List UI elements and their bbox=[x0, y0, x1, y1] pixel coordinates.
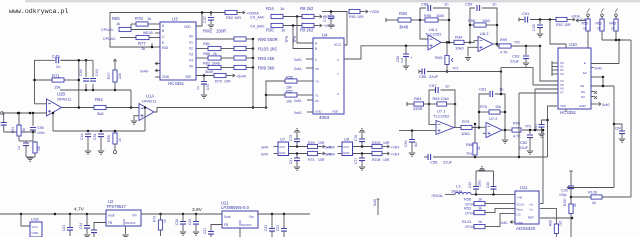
svg-text:C57: C57 bbox=[429, 83, 437, 88]
wire inv bbox=[420, 20, 428, 39]
svg-text:R38: R38 bbox=[399, 11, 407, 16]
svg-text:GND: GND bbox=[279, 151, 285, 155]
wire bbox=[195, 214, 197, 221]
wire non-inv input bbox=[2, 112, 47, 114]
input connector bbox=[1, 112, 4, 115]
stub X0 bbox=[551, 61, 553, 65]
wire bbox=[221, 48, 234, 50]
wire bbox=[382, 153, 386, 155]
junction bbox=[87, 130, 90, 133]
wire bbox=[182, 225, 184, 231]
svg-text:U11: U11 bbox=[520, 185, 528, 190]
wire GND stub bbox=[591, 103, 597, 105]
wire bbox=[541, 127, 543, 133]
junction bbox=[296, 145, 299, 148]
resistor R81 bbox=[208, 46, 221, 50]
wire bbox=[529, 130, 531, 134]
svg-text:R99: R99 bbox=[500, 38, 507, 42]
svg-text:CPU40-: CPU40- bbox=[103, 37, 117, 41]
svg-text:+5v40: +5v40 bbox=[236, 74, 246, 78]
junction bbox=[159, 213, 162, 216]
svg-text:www.odkrywca.pl: www.odkrywca.pl bbox=[9, 8, 68, 15]
svg-text:0v40-: 0v40- bbox=[294, 67, 302, 71]
wire pin stub bbox=[155, 63, 160, 65]
svg-text:R74: R74 bbox=[308, 158, 314, 162]
svg-text:1k: 1k bbox=[597, 27, 601, 31]
svg-text:+VDA: +VDA bbox=[571, 15, 581, 19]
wire rail bbox=[211, 12, 225, 14]
svg-text:4053: 4053 bbox=[319, 115, 330, 120]
svg-text:C75: C75 bbox=[323, 15, 327, 22]
svg-text:R58: R58 bbox=[464, 198, 471, 202]
wiper RW1 bbox=[451, 58, 453, 62]
svg-text:1M: 1M bbox=[22, 128, 26, 133]
capacitor C51 bbox=[98, 134, 104, 137]
wire non-inv bbox=[468, 47, 478, 56]
svg-text:R107: R107 bbox=[563, 198, 567, 206]
capacitor C68 bbox=[428, 5, 431, 11]
junction bbox=[518, 156, 521, 159]
svg-text:SCLK: SCLK bbox=[517, 203, 525, 207]
capacitor C75 bbox=[328, 16, 334, 19]
junction riser bbox=[539, 45, 542, 48]
wire R56 down bbox=[587, 31, 589, 48]
wire bbox=[424, 103, 438, 105]
ground C54 bbox=[409, 153, 415, 156]
wire bbox=[85, 84, 87, 90]
junction bbox=[265, 106, 268, 109]
junction bbox=[549, 18, 552, 21]
wire R85 to B bbox=[131, 29, 160, 31]
svg-text:-In: -In bbox=[529, 208, 533, 212]
wire C43 top bbox=[92, 60, 94, 77]
wire GND stub bbox=[155, 76, 160, 78]
svg-text:E: E bbox=[584, 61, 586, 65]
wire C57 left bbox=[429, 90, 435, 104]
svg-text:CH_A40-: CH_A40- bbox=[250, 16, 266, 20]
regulator U21 bbox=[222, 211, 258, 228]
wire bbox=[34, 153, 36, 157]
wire bbox=[446, 42, 448, 55]
svg-text:1k: 1k bbox=[281, 28, 285, 33]
junction bbox=[496, 24, 499, 27]
junction bbox=[496, 43, 499, 46]
svg-text:RW2: RW2 bbox=[203, 29, 213, 34]
ground L3 caps bbox=[479, 167, 485, 170]
wire bbox=[86, 229, 88, 234]
junction C52 bbox=[529, 129, 532, 132]
resistor R29 bbox=[308, 144, 318, 148]
svg-text:4.7K: 4.7K bbox=[513, 135, 521, 139]
wire R78 to A bbox=[148, 23, 160, 25]
wire fb left bbox=[479, 94, 489, 128]
svg-text:Y0: Y0 bbox=[315, 80, 319, 84]
ground C76 bbox=[359, 129, 365, 132]
wire R107 down bbox=[570, 214, 572, 238]
svg-text:10R: 10R bbox=[318, 158, 325, 162]
wire Y0 to non-inv bbox=[344, 46, 428, 59]
wire bias rail 2 bbox=[53, 130, 145, 132]
svg-text:GND: GND bbox=[162, 75, 170, 79]
svg-text:3.8V: 3.8V bbox=[192, 207, 203, 213]
wire to C64 bbox=[614, 124, 622, 131]
wire bbox=[500, 68, 502, 94]
wire bbox=[330, 19, 332, 24]
wire -In bbox=[540, 208, 556, 224]
svg-text:1k: 1k bbox=[116, 21, 120, 26]
svg-text:1n: 1n bbox=[445, 84, 449, 89]
wire R124 bbox=[485, 213, 515, 226]
no-connect x1 bbox=[594, 91, 597, 94]
resistor R38 bbox=[398, 18, 411, 22]
junction bbox=[534, 129, 537, 132]
resistor R84 bbox=[414, 102, 424, 106]
svg-text:C91: C91 bbox=[522, 11, 530, 16]
capacitor C35 bbox=[537, 25, 543, 28]
junction bbox=[469, 24, 472, 27]
svg-text:2n: 2n bbox=[56, 64, 60, 69]
junction bbox=[469, 41, 472, 44]
capacitor C59 bbox=[477, 5, 480, 11]
svg-text:1k: 1k bbox=[141, 46, 145, 51]
svg-text:OPA211: OPA211 bbox=[57, 97, 72, 102]
wire bbox=[405, 57, 407, 65]
svg-text:LP3985W5-5.0: LP3985W5-5.0 bbox=[221, 205, 250, 210]
junction bbox=[478, 111, 481, 114]
wire E riser bbox=[630, 40, 632, 197]
wire bbox=[86, 214, 88, 225]
wire bbox=[464, 41, 470, 43]
wire nc1 bbox=[591, 91, 594, 93]
wire GND stub bbox=[510, 221, 515, 223]
wire C68 left bbox=[420, 8, 426, 20]
wire out bbox=[441, 41, 454, 43]
junction +In bbox=[542, 129, 545, 132]
junction bbox=[283, 213, 286, 216]
svg-text:X2: X2 bbox=[189, 46, 193, 50]
svg-text:R86: R86 bbox=[203, 52, 210, 56]
reference U7b bbox=[278, 142, 289, 156]
svg-text:R53: R53 bbox=[556, 23, 563, 27]
svg-text:1k: 1k bbox=[583, 27, 587, 31]
resistor R57 bbox=[285, 93, 297, 97]
junction C75 bbox=[330, 10, 333, 13]
svg-text:R43: R43 bbox=[610, 22, 616, 26]
wire R61 top bbox=[601, 17, 603, 20]
multiplexer U10 bbox=[558, 48, 591, 109]
svg-text:R59: R59 bbox=[107, 135, 111, 142]
svg-text:X0: X0 bbox=[189, 34, 193, 38]
junction bbox=[361, 152, 364, 155]
junction bbox=[33, 79, 36, 82]
junction C42 bbox=[475, 193, 478, 196]
svg-text:L3: L3 bbox=[456, 184, 461, 189]
svg-text:C68: C68 bbox=[421, 2, 429, 7]
junction RW1 tap bbox=[446, 70, 449, 73]
wire bbox=[296, 142, 298, 147]
resistor R56 bbox=[586, 19, 590, 31]
svg-text:+In: +In bbox=[529, 203, 534, 207]
wire bbox=[237, 12, 241, 14]
wire X7 riser bbox=[518, 93, 520, 157]
resistor R43 bbox=[614, 19, 618, 31]
wire to U1B bbox=[21, 214, 30, 226]
svg-text:R24: R24 bbox=[266, 6, 274, 11]
arrow bbox=[155, 62, 159, 65]
svg-text:C37: C37 bbox=[203, 16, 207, 23]
svg-text:CE: CE bbox=[580, 84, 584, 88]
junction bbox=[114, 89, 117, 92]
junction VDD rail bbox=[201, 11, 204, 14]
capacitor C76 bbox=[359, 139, 365, 142]
svg-text:GND: GND bbox=[32, 231, 40, 235]
svg-text:VEE: VEE bbox=[185, 75, 191, 79]
wire pin X0 bbox=[552, 62, 558, 64]
arrow +VD4 bbox=[321, 152, 325, 155]
svg-text:R70: R70 bbox=[215, 80, 222, 84]
svg-text:C26: C26 bbox=[175, 219, 179, 225]
svg-text:330R: 330R bbox=[413, 106, 423, 111]
svg-text:22uF: 22uF bbox=[429, 74, 439, 79]
wire GND bbox=[125, 226, 127, 234]
wire nc2 bbox=[591, 96, 594, 98]
wire VDD rail bbox=[196, 13, 202, 27]
svg-text:C46: C46 bbox=[79, 69, 83, 76]
ground C44 bbox=[85, 151, 91, 154]
wire bbox=[87, 137, 89, 150]
ground C51 bbox=[98, 151, 104, 154]
resistor R98 bbox=[474, 23, 486, 27]
svg-text:U7.2: U7.2 bbox=[489, 116, 498, 121]
junction VEE bbox=[203, 74, 206, 77]
arrow +VD4 bbox=[386, 152, 390, 155]
wire bbox=[221, 57, 234, 59]
capacitor C57 bbox=[436, 87, 439, 93]
resistor R86 bbox=[208, 56, 221, 60]
svg-text:2k: 2k bbox=[573, 203, 577, 207]
wire tiny bbox=[25, 141, 27, 143]
wire bbox=[246, 67, 253, 69]
wire GND row bbox=[289, 153, 308, 155]
svg-text:R75: R75 bbox=[480, 105, 487, 109]
svg-text:0v40-: 0v40- bbox=[294, 111, 302, 115]
svg-text:C44: C44 bbox=[80, 133, 84, 140]
junction bbox=[29, 112, 32, 115]
stub X3 bbox=[551, 72, 553, 76]
wire to U1A bbox=[106, 107, 139, 109]
capacitor C45 bbox=[56, 57, 59, 63]
op-amp U6.2 bbox=[478, 37, 493, 52]
svg-text:+VB: +VB bbox=[517, 196, 522, 200]
wire bbox=[271, 231, 273, 237]
junction RW1 bbox=[446, 41, 449, 44]
junction bbox=[85, 89, 88, 92]
junction C48 bbox=[492, 193, 495, 196]
wire bbox=[195, 225, 197, 231]
ground U7.2 bbox=[502, 140, 508, 143]
wire out bbox=[454, 127, 461, 129]
wire non-inv bbox=[399, 130, 436, 132]
svg-text:Vin: Vin bbox=[249, 215, 254, 219]
resistor R86b bbox=[234, 56, 246, 60]
capacitor C64 bbox=[619, 131, 625, 134]
junction bbox=[69, 213, 72, 216]
svg-text:1u: 1u bbox=[17, 146, 21, 150]
svg-text:C51: C51 bbox=[93, 133, 97, 140]
wire bbox=[32, 130, 34, 141]
junction bbox=[618, 39, 621, 42]
svg-text:Vin: Vin bbox=[132, 214, 137, 218]
wire VEE row bbox=[196, 75, 214, 77]
wire bbox=[114, 82, 116, 90]
wire C37 to gnd bbox=[210, 20, 212, 24]
svg-text:R47: R47 bbox=[107, 72, 111, 79]
svg-text:U6.2: U6.2 bbox=[480, 31, 489, 36]
wire bbox=[447, 103, 455, 105]
resistor R124 bbox=[474, 225, 485, 229]
wire bias rail bbox=[60, 89, 131, 91]
capacitor C58 bbox=[428, 154, 431, 160]
wire bbox=[502, 129, 512, 131]
svg-text:Z: Z bbox=[337, 92, 339, 96]
wire rail 3.8V bbox=[141, 213, 222, 215]
resistor RW2b bbox=[234, 37, 246, 41]
wire stub bbox=[274, 153, 279, 155]
wire bbox=[318, 146, 322, 148]
svg-text:1k: 1k bbox=[478, 207, 482, 211]
wire TP5 to A bbox=[297, 17, 313, 44]
wire bbox=[160, 214, 162, 220]
junction bbox=[474, 156, 477, 159]
svg-text:R81: R81 bbox=[203, 42, 210, 46]
svg-text:R128: R128 bbox=[588, 191, 597, 195]
wire pin stub bbox=[155, 70, 160, 72]
wire to inv bbox=[429, 104, 436, 124]
adc U11 bbox=[515, 191, 539, 224]
wire bbox=[411, 131, 413, 139]
connector R43 top bbox=[615, 14, 618, 17]
wire pin 112 bbox=[307, 111, 313, 113]
power +VDD arrow bbox=[364, 10, 368, 13]
ground U1A bbox=[131, 121, 137, 124]
power +5v arrow bbox=[231, 74, 235, 77]
svg-text:2k49: 2k49 bbox=[212, 62, 220, 66]
svg-text:OPA211: OPA211 bbox=[142, 99, 157, 104]
junction TP1 row bbox=[500, 70, 503, 73]
ground U6.2 bbox=[465, 58, 471, 61]
wire bbox=[493, 43, 497, 45]
svg-text:C48: C48 bbox=[486, 182, 490, 188]
capacitor C29 bbox=[193, 222, 199, 225]
svg-text:2u2: 2u2 bbox=[400, 58, 404, 63]
svg-text:R71: R71 bbox=[52, 74, 60, 79]
wire bbox=[246, 38, 253, 40]
arrow +VD4 bbox=[386, 145, 390, 148]
capacitor C22 bbox=[269, 229, 275, 232]
wire rail stub bbox=[322, 11, 331, 13]
svg-text:C81: C81 bbox=[479, 87, 487, 92]
wire bbox=[419, 71, 422, 73]
resistor R79 bbox=[461, 125, 472, 129]
wire +In riser bbox=[540, 130, 543, 204]
wire row A bbox=[196, 38, 234, 40]
ground C56 bbox=[403, 66, 409, 69]
ground C35 bbox=[537, 34, 543, 37]
wire bbox=[361, 142, 363, 147]
wire riser bbox=[52, 113, 54, 131]
ground C72 bbox=[201, 95, 207, 98]
resistor R88 bbox=[473, 143, 477, 155]
wire fb left bbox=[35, 60, 56, 104]
junction bbox=[504, 129, 507, 132]
resistor R99 bbox=[499, 44, 511, 48]
svg-text:C42: C42 bbox=[468, 182, 472, 188]
svg-text:2k: 2k bbox=[213, 52, 217, 56]
wire inv bbox=[470, 41, 478, 43]
ground cluster bbox=[27, 158, 33, 161]
svg-text:U7: U7 bbox=[280, 137, 286, 142]
wire C46 top bbox=[85, 60, 87, 77]
wire bbox=[474, 141, 476, 143]
wire bbox=[32, 113, 34, 126]
wire left drop bbox=[3, 113, 5, 122]
wire VSS riser bbox=[548, 106, 558, 157]
svg-text:10k0: 10k0 bbox=[455, 45, 464, 50]
wire R96 down bbox=[555, 234, 557, 238]
wire top rail ext bbox=[61, 59, 93, 61]
wire stub bbox=[424, 156, 428, 158]
resistor R60 bbox=[33, 142, 37, 153]
resistor R128 bbox=[591, 195, 602, 199]
svg-text:1k: 1k bbox=[280, 6, 284, 11]
wire bbox=[318, 153, 322, 155]
svg-text:R78: R78 bbox=[135, 16, 143, 21]
svg-text:C79: C79 bbox=[289, 135, 293, 141]
junction bbox=[18, 131, 21, 134]
svg-text:0v40-: 0v40- bbox=[325, 153, 333, 157]
reference U8 bbox=[342, 142, 353, 156]
svg-text:100p: 100p bbox=[559, 193, 567, 197]
capacitor C43 bbox=[90, 79, 96, 82]
junction bbox=[85, 59, 88, 62]
svg-text:R54: R54 bbox=[95, 97, 103, 102]
svg-text:R52: R52 bbox=[226, 16, 233, 20]
svg-text:VSS: VSS bbox=[560, 104, 566, 108]
wire bbox=[539, 20, 541, 25]
junction REF bbox=[571, 217, 574, 220]
arrow +VDA bbox=[576, 19, 580, 22]
wire out rail bbox=[522, 129, 543, 131]
wire pin 68 bbox=[306, 67, 313, 69]
wire fb left bbox=[470, 8, 475, 42]
junction bbox=[78, 79, 81, 82]
connector R56 top bbox=[587, 14, 590, 17]
power +VDA arrow bbox=[571, 18, 575, 21]
wire out rail bbox=[511, 45, 540, 47]
wire X5 riser bbox=[501, 68, 533, 85]
wire R128 row bbox=[571, 196, 591, 198]
junction CE bbox=[602, 85, 605, 88]
wire VCC row bbox=[353, 146, 373, 148]
junction bbox=[17, 112, 20, 115]
junction bbox=[52, 112, 55, 115]
wire stub net bbox=[377, 199, 379, 215]
wire bbox=[92, 84, 94, 90]
svg-text:U1B: U1B bbox=[31, 217, 39, 222]
svg-text:0v40-: 0v40- bbox=[294, 58, 302, 62]
svg-text:R89 3k0: R89 3k0 bbox=[258, 66, 275, 71]
wire REF bbox=[540, 217, 572, 219]
